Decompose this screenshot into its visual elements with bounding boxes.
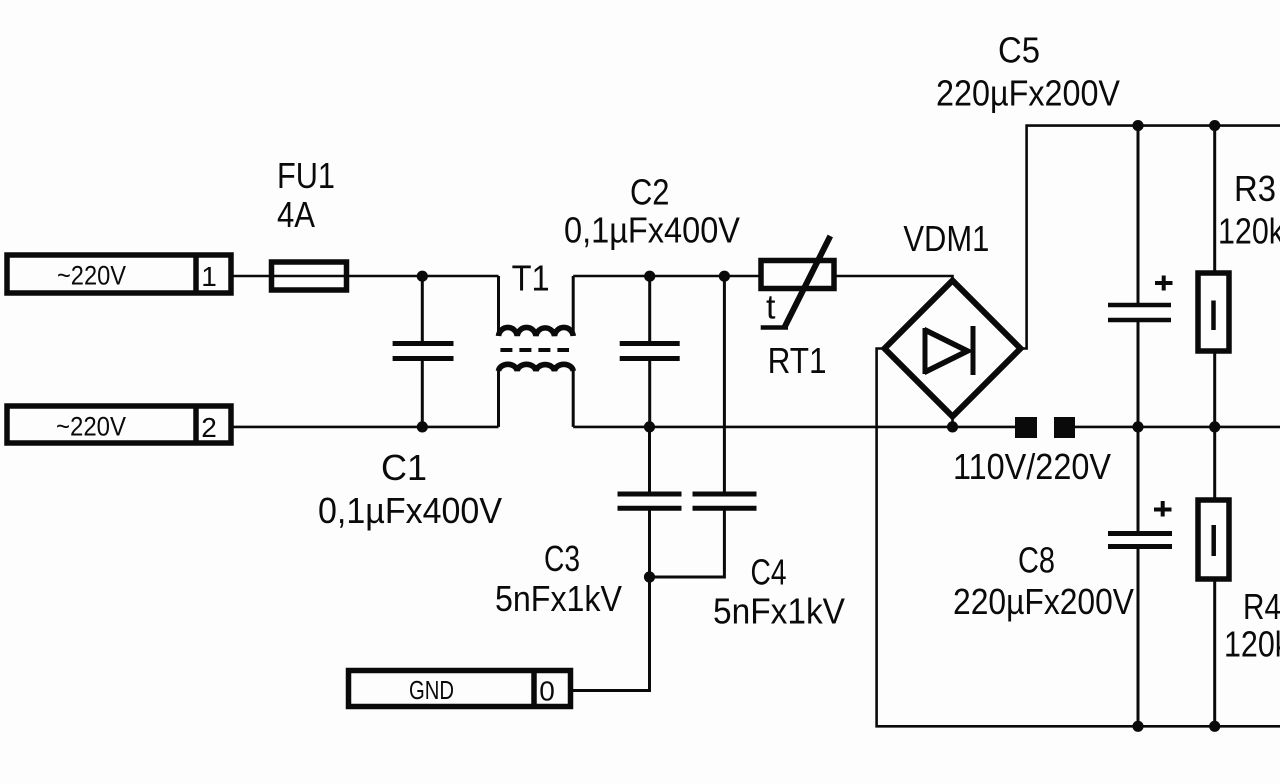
diode cathode bar inside VDM1 bbox=[971, 326, 976, 375]
junction dot C3/C4 node bbox=[644, 571, 655, 582]
junction dot bottom output rail at R4 bbox=[1209, 721, 1220, 732]
capacitor C8 plus sign bbox=[1154, 501, 1172, 517]
svg-text:T1: T1 bbox=[512, 258, 550, 299]
svg-text:RT1: RT1 bbox=[768, 340, 827, 381]
diode anode bar inside VDM1 bbox=[923, 328, 928, 374]
capacitor C3 plates bbox=[618, 494, 682, 508]
svg-text:R3: R3 bbox=[1234, 168, 1276, 209]
resistor R4 power mark bbox=[1211, 525, 1216, 556]
thermistor RT1 diagonal strike bbox=[784, 236, 830, 328]
junction dot top output rail at C5 bbox=[1132, 120, 1143, 131]
svg-text:220µFx200V: 220µFx200V bbox=[936, 73, 1120, 114]
svg-text:~220V: ~220V bbox=[57, 261, 126, 291]
resistor R4 leads bbox=[1213, 427, 1216, 726]
transformer T1 right winding leads bbox=[572, 276, 575, 427]
wire bridge bottom vertex to bottom rail bbox=[951, 417, 954, 427]
switch jumper square left (110V/220V) bbox=[1015, 417, 1037, 438]
svg-text:C8: C8 bbox=[1018, 540, 1055, 581]
svg-text:120k: 120k bbox=[1224, 624, 1280, 665]
svg-text:110V/220V: 110V/220V bbox=[953, 446, 1111, 487]
bridge rectifier VDM1 diamond bbox=[885, 281, 1021, 417]
svg-text:FU1: FU1 bbox=[277, 155, 335, 196]
capacitor C2 leads bbox=[648, 276, 651, 427]
junction dot top rail at C1 bbox=[417, 271, 428, 282]
capacitor C1 leads bbox=[421, 276, 424, 427]
svg-text:~220V: ~220V bbox=[56, 412, 126, 442]
svg-text:4A: 4A bbox=[277, 194, 315, 235]
thermistor RT1 foot bar bbox=[761, 325, 788, 330]
resistor R3 power mark bbox=[1211, 301, 1216, 331]
junction dot bottom rail at bridge bbox=[947, 421, 958, 432]
switch jumper square right (110V/220V) bbox=[1054, 417, 1075, 438]
capacitor C5 plus sign bbox=[1155, 276, 1173, 291]
svg-text:C1: C1 bbox=[381, 447, 427, 488]
svg-text:2: 2 bbox=[201, 412, 217, 443]
junction dot bottom output rail at C8 bbox=[1132, 721, 1143, 732]
svg-text:t: t bbox=[766, 289, 776, 327]
wire top rail from terminal 1 through FU1 to T1 bbox=[231, 275, 499, 278]
svg-text:5nFx1kV: 5nFx1kV bbox=[713, 591, 845, 632]
capacitor C4 plates bbox=[693, 494, 757, 508]
terminal GND pin 0 bbox=[349, 671, 571, 707]
svg-text:GND: GND bbox=[409, 675, 454, 705]
svg-text:5nFx1kV: 5nFx1kV bbox=[495, 578, 622, 619]
resistor R3 leads bbox=[1213, 126, 1216, 427]
resistor R4 body bbox=[1198, 500, 1229, 579]
svg-text:120k: 120k bbox=[1218, 211, 1280, 252]
junction dot bottom rail at C1 bbox=[417, 421, 428, 432]
terminal X1 ~220V pin 1 bbox=[7, 255, 231, 293]
transformer T1 top winding bbox=[499, 327, 574, 336]
svg-text:1: 1 bbox=[201, 261, 217, 292]
capacitor C3 leads bbox=[571, 427, 650, 691]
transformer T1 left winding leads bbox=[497, 276, 500, 427]
terminal X2 ~220V pin 2 bbox=[7, 406, 231, 443]
junction dot bottom rail at C8 bbox=[1132, 421, 1143, 432]
svg-text:220µFx200V: 220µFx200V bbox=[953, 581, 1134, 622]
svg-text:C3: C3 bbox=[544, 538, 580, 579]
svg-text:R4: R4 bbox=[1243, 586, 1280, 627]
wire top rail from T1 to RT1 bbox=[573, 275, 761, 278]
junction dot bottom rail at R3/R4 bbox=[1209, 421, 1220, 432]
transformer T1 core dashed line bbox=[500, 348, 569, 352]
wire bottom rail from switch square to right edge bbox=[1074, 426, 1280, 429]
capacitor C8 plates bbox=[1108, 534, 1172, 547]
junction dot top rail at C2 bbox=[644, 271, 655, 282]
junction dot top output rail at R3 bbox=[1209, 120, 1220, 131]
capacitor C2 plates bbox=[620, 344, 680, 359]
svg-text:0: 0 bbox=[539, 676, 555, 707]
svg-text:C2: C2 bbox=[630, 172, 670, 213]
junction dot bottom rail at C2/C3 bbox=[644, 421, 655, 432]
capacitor C5 leads bbox=[1137, 126, 1140, 427]
diode triangle inside VDM1 bbox=[924, 330, 968, 373]
wire from RT1 to bridge top vertex bbox=[834, 276, 953, 281]
wire bridge right vertex up to top output rail bbox=[1021, 126, 1280, 349]
capacitor C8 leads bbox=[1137, 427, 1140, 726]
fuse FU1 body bbox=[272, 262, 347, 290]
svg-text:C4: C4 bbox=[751, 552, 787, 593]
resistor R3 body bbox=[1198, 273, 1229, 351]
wire bridge left vertex down to bottom output rail bbox=[877, 349, 1280, 727]
svg-text:0,1µFx400V: 0,1µFx400V bbox=[564, 210, 740, 251]
wire bottom rail from terminal 2 to T1 bbox=[231, 426, 499, 429]
capacitor C5 plates bbox=[1108, 305, 1171, 320]
junction dot top rail at C4 bbox=[719, 271, 730, 282]
capacitor C4 leads bbox=[650, 276, 725, 577]
transformer T1 bottom winding bbox=[499, 364, 574, 371]
wire bottom rail from T1 to switch square bbox=[573, 426, 1016, 429]
svg-text:VDM1: VDM1 bbox=[903, 218, 989, 259]
capacitor C1 plates bbox=[393, 344, 454, 359]
svg-text:0,1µFx400V: 0,1µFx400V bbox=[318, 490, 502, 531]
thermistor RT1 body bbox=[761, 261, 834, 289]
svg-text:C5: C5 bbox=[998, 30, 1040, 71]
